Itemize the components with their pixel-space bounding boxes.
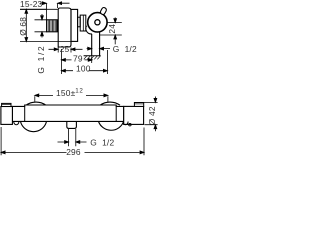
dim 79 line with arrows — [61, 59, 92, 62]
dim 79 right extension — [91, 57, 93, 64]
dim G1/2-nut up arrow — [41, 32, 44, 38]
left check-valve dome — [14, 122, 19, 125]
dim 25 left external arrow — [49, 48, 59, 51]
svg-text:Ø 42: Ø 42 — [147, 106, 157, 125]
dim 15-23 extension line left — [45, 3, 47, 19]
handle hub inner circle — [95, 20, 100, 25]
dim O42 extension lines — [144, 102, 158, 124]
svg-text:25: 25 — [60, 44, 70, 54]
svg-text:150±: 150± — [56, 88, 76, 98]
svg-text:G 1/2: G 1/2 — [90, 137, 114, 147]
svg-text:12: 12 — [75, 88, 83, 95]
svg-text:100: 100 — [76, 63, 91, 73]
dim G1/2 outlet left arrow — [58, 141, 69, 144]
dim O42 down arrow — [154, 97, 157, 103]
svg-text:79: 79 — [73, 54, 83, 64]
connector washer — [78, 17, 81, 27]
right knob grip tab — [134, 103, 143, 107]
dim G1/2-nut extension ticks — [35, 20, 47, 32]
body fillet bump lower-left of handle — [86, 26, 92, 34]
knurled union nut — [47, 20, 58, 32]
dim 296 extension lines — [1, 127, 144, 155]
supply pipe — [92, 32, 100, 56]
dim G1/2 outlet extension lines — [69, 129, 76, 146]
handle grip tab — [100, 7, 107, 15]
valve body (side) — [58, 8, 71, 47]
wall hatch — [84, 56, 101, 60]
dim 150 line with arrows — [35, 94, 108, 97]
outlet nipple — [67, 122, 77, 129]
dim 296 line with arrows — [1, 151, 144, 154]
dim O68 vertical line with arrows — [25, 9, 28, 41]
connector nut — [80, 15, 86, 31]
dim 100 right extension — [106, 50, 108, 74]
dim G1/2-nut down arrow — [41, 14, 44, 20]
dim 25 extension lines — [58, 48, 71, 53]
svg-text:15-23: 15-23 — [20, 0, 43, 9]
dim 25 right external arrow — [71, 48, 83, 51]
dim 15-23 arrow right-pointing — [40, 2, 46, 5]
wall escutcheon (side) — [71, 9, 78, 41]
dim 79 shared extension line — [60, 49, 62, 74]
svg-text:G 1/2: G 1/2 — [113, 44, 137, 54]
right escutcheon top arc — [100, 102, 120, 105]
svg-text:296: 296 — [66, 147, 81, 157]
dim 15-23 leader underline — [20, 8, 58, 10]
knurl hatch lines — [48, 20, 56, 31]
right check-valve dome — [123, 122, 128, 125]
dim 24 down arrow — [114, 17, 117, 22]
left escutcheon top arc — [26, 102, 46, 105]
dim G1/2 pipe arrows — [87, 47, 92, 50]
dim O42 up arrow — [154, 125, 157, 132]
bar body — [12, 105, 123, 121]
dim 150 extension lines — [35, 96, 108, 102]
right tiny circle — [129, 124, 131, 126]
dim 24 extension lines — [100, 23, 122, 35]
dim O68 extension top — [20, 8, 46, 10]
dim O68 extension bottom — [20, 41, 71, 43]
right junction line on bar — [115, 106, 117, 121]
svg-text:24: 24 — [107, 24, 117, 34]
left knob grip tab inner line — [2, 104, 11, 106]
dim G1/2 outlet right arrow — [76, 141, 87, 144]
svg-text:G 1/2: G 1/2 — [36, 45, 46, 74]
handle circle — [88, 13, 107, 32]
dim 15-23 arrow left-pointing — [58, 2, 70, 5]
svg-text:Ø 68: Ø 68 — [18, 17, 28, 36]
connector nut inner facet line — [82, 15, 84, 31]
dim 15-23 extension line right — [57, 3, 59, 8]
left junction line on bar — [24, 106, 26, 121]
right escutcheon bottom arc — [99, 122, 124, 131]
dim 100 line with arrows — [61, 69, 107, 72]
dim 24 up arrow — [114, 35, 117, 44]
right knob grip tab inner line — [134, 103, 143, 105]
right knob — [124, 106, 144, 124]
left knob — [1, 107, 13, 125]
wall line — [84, 55, 101, 57]
left escutcheon bottom arc — [21, 122, 47, 132]
left knob grip tab — [2, 103, 11, 106]
